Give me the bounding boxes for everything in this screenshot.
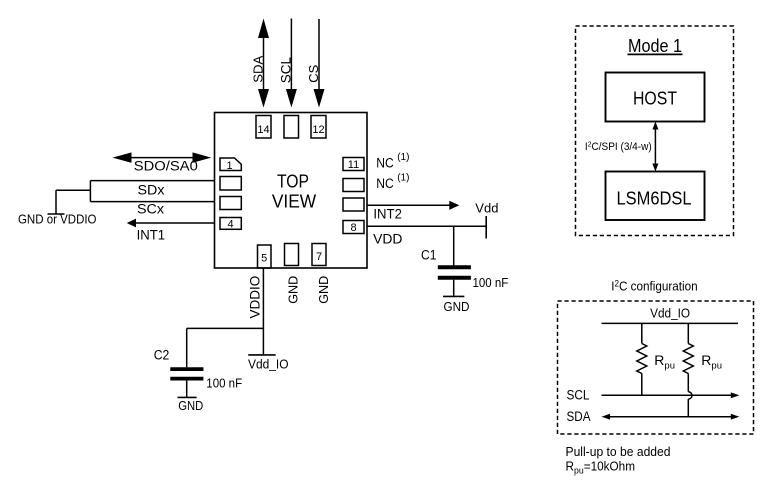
svg-text:C2: C2	[154, 347, 170, 362]
svg-text:Vdd: Vdd	[475, 200, 498, 215]
label C1	[421, 248, 437, 263]
wire Vdd_IO rail	[602, 322, 739, 324]
wire C2 to GND	[186, 380, 188, 397]
svg-text:NC: NC	[376, 176, 394, 191]
wire VDD to C1	[453, 226, 455, 265]
svg-text:Mode 1: Mode 1	[628, 36, 682, 56]
pin 4	[220, 218, 241, 231]
wire VDD (pin 8 to Vdd)	[367, 225, 486, 227]
label GND (rotated, pin 7)	[317, 276, 331, 304]
svg-text:INT1: INT1	[137, 227, 166, 242]
svg-text:Vdd_IO: Vdd_IO	[650, 306, 690, 321]
svg-text:NC: NC	[376, 155, 394, 170]
pin 12	[311, 116, 326, 139]
label VDD	[373, 231, 403, 246]
label SDx	[138, 182, 165, 197]
svg-text:SDO/SA0: SDO/SA0	[134, 159, 198, 174]
svg-text:(1): (1)	[397, 173, 409, 184]
label CS	[306, 64, 321, 82]
label C2	[154, 347, 170, 362]
label INT1	[137, 227, 166, 242]
svg-text:14: 14	[257, 124, 269, 136]
pin 3 (unlabelled left pad, SCx)	[220, 197, 241, 210]
svg-text:Pull-up to be added: Pull-up to be added	[566, 444, 671, 459]
svg-text:I2C/SPI (3/4-w): I2C/SPI (3/4-w)	[585, 140, 652, 153]
label SDA	[250, 55, 265, 82]
wire INT2 (arrow out of pin 9)	[367, 201, 459, 210]
svg-text:VDDIO: VDDIO	[247, 276, 262, 319]
label GND (rotated, pin 6)	[286, 276, 300, 304]
pin 10 (unlabelled right pad, NC)	[343, 179, 364, 192]
wire INT1 (arrow out of pin 4)	[127, 219, 215, 228]
svg-text:VDD: VDD	[373, 231, 403, 246]
label NC (1) pin 11	[376, 152, 409, 170]
resistor Rpu (SCL pull-up)	[637, 323, 647, 395]
wire SCL (arrow right)	[602, 392, 740, 398]
note pull-up	[566, 444, 671, 459]
wire C1 to GND	[453, 280, 455, 296]
wire hop over SCL	[688, 392, 692, 399]
label SDA (I2C)	[567, 409, 591, 424]
ground (C2)	[178, 396, 197, 398]
label Rpu (SCL)	[654, 352, 675, 372]
label I2C/SPI (3/4-w)	[585, 140, 652, 153]
wire SDA (bidirectional arrow)	[602, 414, 740, 420]
label GND (C2)	[178, 398, 203, 413]
svg-text:(1): (1)	[397, 152, 409, 163]
label Vdd_IO (I2C net)	[650, 306, 690, 321]
label 100 nF (C2)	[206, 377, 242, 391]
wire Rpu to SDA	[687, 399, 689, 417]
svg-text:GND: GND	[444, 299, 470, 314]
svg-text:11: 11	[348, 159, 359, 171]
wire VDDIO (pin 5 down to Vdd_IO)	[262, 268, 264, 354]
label Vdd_IO	[248, 357, 289, 371]
pin 7	[312, 244, 326, 266]
svg-text:SDA: SDA	[250, 55, 265, 82]
wire SCL (arrow into pin 13)	[286, 19, 297, 108]
IC body U1 (TOP VIEW package outline)	[215, 113, 368, 269]
svg-text:SCL: SCL	[278, 56, 293, 83]
svg-text:INT2: INT2	[373, 206, 402, 221]
svg-text:8: 8	[350, 222, 356, 234]
svg-text:100 nF: 100 nF	[473, 276, 509, 290]
label GND or VDDIO	[18, 212, 97, 226]
capacitor C1	[438, 267, 471, 277]
wire SDx (pin 2 to left bus)	[90, 180, 214, 182]
svg-text:GND: GND	[317, 276, 331, 304]
label Vdd	[475, 200, 498, 215]
block LSM6DSL	[606, 172, 705, 221]
svg-text:I2C configuration: I2C configuration	[611, 278, 698, 294]
svg-text:HOST: HOST	[633, 89, 677, 109]
resistor Rpu (SDA pull-up)	[683, 323, 693, 391]
pin 2 (unlabelled left pad, SDx)	[220, 177, 241, 191]
label GND (C1)	[444, 299, 470, 314]
svg-text:CS: CS	[306, 64, 321, 82]
label VDDIO (rotated, pin 5)	[247, 276, 262, 319]
svg-text:C1: C1	[421, 248, 437, 263]
pin 1 (chamfered pad)	[220, 158, 241, 172]
svg-text:Vdd_IO: Vdd_IO	[248, 357, 289, 371]
Mode 1 enclosure (dashed)	[576, 26, 734, 236]
svg-text:LSM6DSL: LSM6DSL	[617, 189, 692, 209]
pin 8	[343, 221, 364, 235]
label I2C configuration	[611, 278, 698, 294]
pin 9 (unlabelled right pad, INT2)	[343, 198, 364, 211]
terminal Vdd (bar)	[485, 216, 487, 239]
label SCx	[137, 202, 164, 217]
wire stub to GND or VDDIO	[56, 190, 90, 213]
terminal Vdd_IO (tick)	[248, 354, 276, 356]
label Rpu (SDA)	[701, 352, 722, 372]
svg-text:12: 12	[312, 124, 324, 136]
wire left bus vertical (joins SDx and SCx)	[89, 181, 91, 202]
svg-text:Rpu: Rpu	[654, 352, 675, 372]
svg-text:GND or VDDIO: GND or VDDIO	[18, 212, 97, 226]
label Mode 1 (underlined)	[628, 36, 682, 56]
svg-text:1: 1	[226, 160, 232, 172]
svg-text:TOP: TOP	[277, 171, 309, 192]
svg-text:4: 4	[227, 219, 233, 231]
wire SDO/SA0 (bidirectional arrow to pin 1)	[113, 152, 212, 162]
pin 5	[258, 245, 272, 268]
svg-text:100 nF: 100 nF	[206, 377, 242, 391]
pin 11	[343, 158, 364, 172]
wire HOST-LSM6DSL (bidirectional arrow)	[652, 122, 658, 172]
pin 14	[256, 116, 271, 139]
svg-text:SCL: SCL	[567, 387, 590, 402]
svg-text:7: 7	[316, 251, 322, 263]
pin 13 (unlabelled top-middle pad)	[284, 116, 299, 139]
label TOP VIEW	[272, 171, 317, 212]
wire CS (arrow into pin 12)	[314, 19, 325, 108]
terminal GND or VDDIO (tick)	[48, 213, 65, 215]
capacitor C2	[170, 369, 203, 379]
label NC (1) pin 10	[376, 173, 409, 191]
svg-text:Rpu: Rpu	[701, 352, 722, 372]
svg-text:GND: GND	[286, 276, 300, 304]
block HOST	[606, 73, 705, 122]
svg-text:SDx: SDx	[138, 182, 165, 197]
svg-text:SDA: SDA	[567, 409, 591, 424]
label SDO/SA0	[134, 159, 198, 174]
wire VDDIO to C2	[187, 328, 264, 367]
svg-text:SCx: SCx	[137, 202, 164, 217]
wire SCx (pin 3 to left bus)	[90, 201, 214, 203]
label 100 nF (C1)	[473, 276, 509, 290]
svg-text:GND: GND	[178, 398, 203, 413]
I2C configuration enclosure (dashed)	[558, 301, 754, 434]
pin 6 (unlabelled bottom pad, GND)	[285, 244, 299, 266]
label SCL	[278, 56, 293, 83]
wire SDA (bidirectional arrow into pin 14)	[258, 19, 269, 108]
svg-text:VIEW: VIEW	[272, 190, 317, 211]
svg-text:Rpu=10kOhm: Rpu=10kOhm	[566, 459, 636, 476]
label INT2	[373, 206, 402, 221]
svg-text:5: 5	[261, 253, 267, 265]
ground (C1)	[443, 295, 464, 297]
label SCL (I2C)	[567, 387, 590, 402]
note Rpu value	[566, 459, 636, 476]
